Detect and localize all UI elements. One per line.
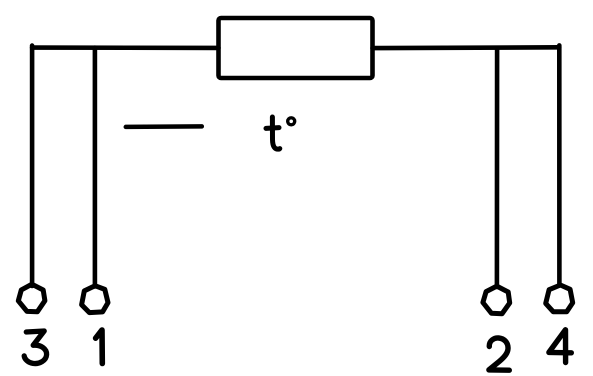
wire: vertical lead to terminal 3 (30, 46, 35, 286)
wire: right horizontal bus from resistor to corner (373, 45, 560, 50)
pin number 3 (24, 331, 46, 364)
terminal 1 (82, 286, 108, 313)
wire: vertical lead to terminal 1 (93, 48, 98, 287)
wire: vertical lead to terminal 4 (557, 45, 562, 285)
pin number 4 (549, 330, 571, 363)
pin number 1 (96, 330, 103, 364)
label t° (temperature) (266, 117, 295, 149)
pin number 2 (489, 338, 509, 370)
wire: left horizontal bus from corner to resistor (32, 45, 218, 50)
temperature symbol leader dash (126, 124, 202, 129)
terminal 4 (546, 285, 573, 312)
resistor (sensing element) body (219, 18, 373, 78)
terminal 2 (483, 286, 510, 314)
wire: vertical lead to terminal 2 (495, 48, 500, 287)
terminal 3 (18, 284, 45, 312)
